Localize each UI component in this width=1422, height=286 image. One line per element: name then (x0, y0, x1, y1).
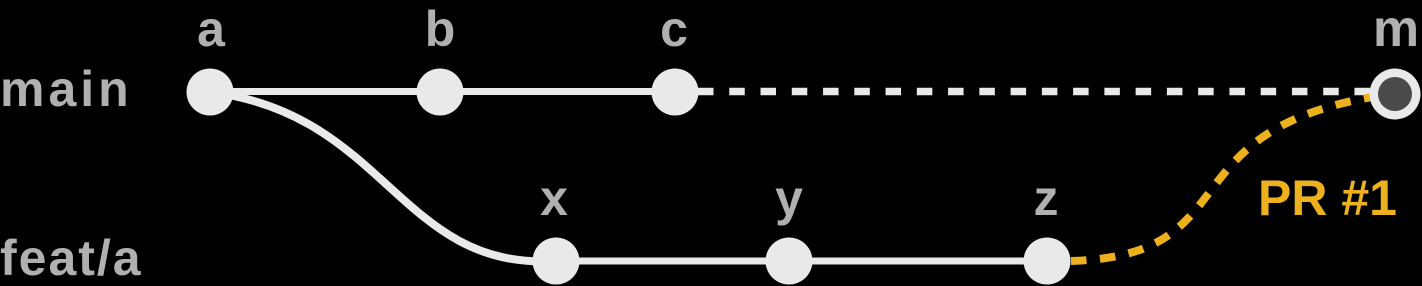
svg-text:main: main (0, 61, 133, 117)
branch curve a to x (210, 92, 556, 261)
dashed line c-m (698, 88, 1370, 96)
svg-text:feat/a: feat/a (0, 230, 143, 286)
main branch line a-c (210, 88, 675, 95)
commit node b (417, 69, 464, 116)
commit node x (533, 238, 580, 285)
commit node a (187, 69, 234, 116)
svg-text:PR #1: PR #1 (1258, 170, 1397, 226)
merge node m outer (1370, 69, 1421, 120)
commit node c (652, 69, 699, 116)
svg-text:y: y (775, 170, 803, 226)
svg-text:c: c (660, 1, 688, 57)
svg-text:m: m (1373, 0, 1419, 58)
svg-text:z: z (1034, 170, 1059, 226)
commit node z (1024, 238, 1071, 285)
svg-text:a: a (197, 1, 226, 57)
svg-text:b: b (425, 1, 456, 57)
commit node y (766, 238, 813, 285)
feat branch line x-z (556, 258, 1047, 265)
merge curve z to m (PR) (1047, 95, 1385, 261)
merge node m inner (1378, 77, 1412, 111)
svg-text:x: x (540, 170, 568, 226)
